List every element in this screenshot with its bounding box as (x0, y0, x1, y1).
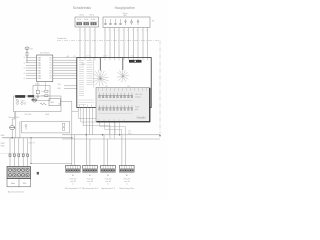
distribution strip box (22, 121, 70, 133)
svg-text:Signalantrieb 1-4: Signalantrieb 1-4 (101, 187, 115, 190)
svg-text:Netzteil 5V=: Netzteil 5V= (9, 116, 21, 119)
svg-text:RB4: RB4 (38, 78, 41, 80)
svg-text:P3: P3 (50, 68, 52, 70)
svg-text:5V=: 5V= (58, 103, 61, 105)
track panel wire 3 (109, 122, 111, 135)
main bus right lower (62, 138, 160, 140)
svg-text:2x: 2x (72, 183, 74, 185)
IC1 right pin wires to main board (53, 58, 77, 79)
svg-text:X1: X1 (73, 56, 75, 58)
track panel top pin ticks (99, 88, 147, 91)
left terminal block X1 (7, 167, 31, 179)
bus junction dots (12, 134, 161, 138)
rectifier diodes (16, 102, 25, 105)
svg-text:2a 2b: 2a 2b (84, 19, 88, 21)
svg-text:Beleuchtung Gleis: Beleuchtung Gleis (120, 187, 135, 190)
bent wire from board bottom 1 (78, 111, 119, 135)
relay contact K3 (91, 22, 97, 25)
main board bottom pin label rows (79, 100, 95, 104)
main bus right upper (62, 134, 160, 136)
terminal circles row 2 (8, 174, 29, 177)
connector block D feed wires (122, 135, 126, 166)
svg-text:Trafo 16V: Trafo 16V (69, 179, 77, 181)
boundary dash-dot line vertical (159, 41, 161, 136)
svg-text:Schaltrelais: Schaltrelais (73, 6, 92, 10)
svg-text:7805: 7805 (50, 102, 54, 104)
LED row 2 bus (98, 107, 133, 109)
LED D1 (125, 19, 127, 25)
svg-text:RB2: RB2 (38, 73, 41, 75)
svg-text:Gleis: Gleis (128, 133, 132, 135)
button symbol S4 (120, 19, 121, 25)
track panel box (96, 88, 150, 122)
svg-text:RB1: RB1 (38, 70, 41, 72)
LED row 1 bus (98, 94, 133, 96)
main bus left (2, 137, 72, 139)
regulator output wire (60, 100, 72, 102)
relay pin labels row (77, 19, 95, 21)
osc to IC connecting wires (38, 82, 46, 90)
svg-text:RB3: RB3 (38, 76, 41, 78)
IC1 left pin wires (26, 58, 37, 79)
lamp wire down (11, 130, 13, 138)
svg-text:1a 1b: 1a 1b (77, 19, 81, 21)
transformer T1 (15, 95, 25, 98)
svg-text:Frontplatte: Frontplatte (57, 37, 67, 40)
connector block A (66, 165, 81, 172)
main board connector strip divider (93, 58, 95, 88)
button symbol S3 (115, 19, 116, 25)
fuse block (37, 172, 39, 175)
bent wire from track panel 2 (105, 122, 122, 135)
long vertical wire (71, 101, 73, 165)
main board top pin ticks (80, 58, 148, 60)
svg-text:a1: a1 (24, 57, 26, 59)
svg-text:P0: P0 (50, 60, 52, 62)
svg-text:Anschlussklemmen: Anschlussklemmen (8, 190, 24, 193)
svg-text:15V~: 15V~ (23, 183, 27, 185)
main board left pin label column (79, 61, 93, 96)
svg-text:P4: P4 (50, 70, 52, 72)
svg-text:Weichenantrieb 1+2: Weichenantrieb 1+2 (65, 187, 81, 190)
button symbol S1 (105, 19, 106, 25)
svg-text:RB0: RB0 (38, 68, 41, 70)
svg-text:a5: a5 (24, 78, 26, 80)
svg-text:2x: 2x (107, 183, 109, 185)
capacitor wires (41, 91, 45, 96)
svg-text:X2: X2 (105, 86, 107, 88)
main board box (77, 58, 151, 108)
oscillator box (33, 86, 50, 101)
connector block A feed wires (74, 135, 76, 166)
svg-text:a4: a4 (24, 73, 26, 75)
pushbutton/LED box (103, 17, 150, 28)
svg-text:Quarz: Quarz (35, 83, 40, 86)
+5V supply symbol (25, 47, 29, 53)
svg-text:4MHz: 4MHz (31, 98, 36, 101)
svg-text:3a 3b: 3a 3b (91, 19, 95, 21)
svg-text:GND 0V: GND 0V (29, 142, 36, 144)
IC1 pin name columns (38, 56, 41, 80)
serial wires to main board (64, 86, 77, 89)
svg-text:a3: a3 (24, 68, 26, 70)
connector block B (83, 165, 98, 172)
svg-text:50Hz: 50Hz (1, 146, 5, 148)
svg-text:Gleisbild: Gleisbild (137, 118, 147, 120)
svg-text:gelb: gelb (135, 109, 138, 111)
relay module box K1-K3 (75, 17, 99, 27)
left block label box (7, 179, 31, 187)
bent wire from board bottom 2 (81, 111, 115, 135)
power supply box (14, 96, 62, 112)
svg-text:2x: 2x (126, 183, 128, 185)
AC source circle (32, 98, 36, 102)
voltage regulator U2 7805 (49, 99, 60, 106)
lower bus (31, 163, 72, 165)
wires relay box to main board (80, 27, 95, 58)
transformer secondary block (28, 95, 34, 97)
LED row 1 elements (99, 93, 133, 98)
terminal circles row 1 (8, 168, 29, 171)
crystal Q1 (36, 87, 39, 97)
button symbol S2 (110, 19, 111, 25)
boundary dash-dot line horizontal (57, 40, 160, 42)
bent wire from board bottom 3 (83, 126, 110, 139)
svg-text:P1: P1 (50, 63, 52, 65)
svg-text:a2: a2 (24, 62, 26, 64)
relay contact K1 (77, 22, 82, 25)
connector block C feed wires (104, 135, 108, 166)
board brand label (129, 60, 142, 63)
wire power box to bus (15, 112, 17, 138)
IC1 left pin labels (24, 57, 26, 80)
capacitor C1 (45, 90, 48, 92)
wire fan bundle left (92, 58, 108, 86)
svg-text:rot/grün: rot/grün (135, 96, 141, 99)
svg-text:Weichenantrieb 3+4: Weichenantrieb 3+4 (82, 187, 98, 190)
svg-text:2x: 2x (89, 183, 91, 185)
pullup resistor R1 (26, 53, 28, 64)
svg-text:GND: GND (1, 135, 6, 137)
LED row 2 pin numbers (99, 112, 133, 114)
svg-text:5V= 16V~: 5V= 16V~ (25, 114, 33, 116)
board bottom wires to bus (87, 108, 93, 135)
capacitor C2 (45, 95, 48, 97)
svg-text:P5: P5 (50, 73, 52, 75)
svg-text:P7: P7 (50, 78, 52, 80)
track panel wire 4 (114, 122, 116, 139)
ground symbol in oscillator box (37, 97, 40, 99)
lamp / indicator (10, 126, 15, 130)
bus connector vertical (30, 138, 32, 164)
wire to distribution strip (19, 121, 21, 138)
strip terminal mark right (63, 123, 65, 130)
connector block B feed wires (86, 135, 90, 166)
connector block D (120, 165, 135, 172)
svg-text:Trafo 16V: Trafo 16V (105, 179, 113, 181)
svg-text:X3: X3 (127, 86, 129, 88)
plug symbols on feed wires (9, 154, 29, 157)
svg-text:Netz: Netz (11, 182, 15, 185)
bent wire from track panel 1 (100, 122, 126, 139)
pin number labels above board edge (86, 56, 134, 58)
jog wire from board bottom to long vertical (72, 108, 83, 126)
LED row 2 elements (99, 105, 133, 110)
svg-text:Hauptplatine: Hauptplatine (115, 6, 135, 10)
wire id labels under relay box (79, 30, 148, 32)
smoothing resistor (40, 103, 47, 105)
LED D3 (137, 19, 139, 25)
LED row 1 pin numbers (99, 100, 133, 102)
connector block C (101, 165, 116, 172)
svg-text:IC1 PIC16: IC1 PIC16 (40, 52, 50, 54)
strip terminal mark left (25, 125, 27, 130)
AC ripple marks (16, 99, 25, 102)
left boundary faint line (0, 152, 28, 154)
wire fan bundle right (117, 58, 129, 82)
lamp wire up (12, 112, 15, 126)
svg-text:P2: P2 (50, 65, 52, 67)
LED D2 (130, 19, 132, 25)
track panel shadow (97, 88, 151, 122)
svg-text:Trafo 16V: Trafo 16V (123, 179, 131, 181)
IC1 microcontroller (37, 55, 53, 82)
svg-text:Trafo 16V: Trafo 16V (87, 179, 95, 181)
relay contact K2 (84, 22, 89, 25)
main board bottom pin ticks (80, 105, 92, 109)
wires button box to main board (105, 28, 148, 58)
left block feed wires (10, 138, 28, 167)
svg-text:P6: P6 (50, 76, 52, 78)
